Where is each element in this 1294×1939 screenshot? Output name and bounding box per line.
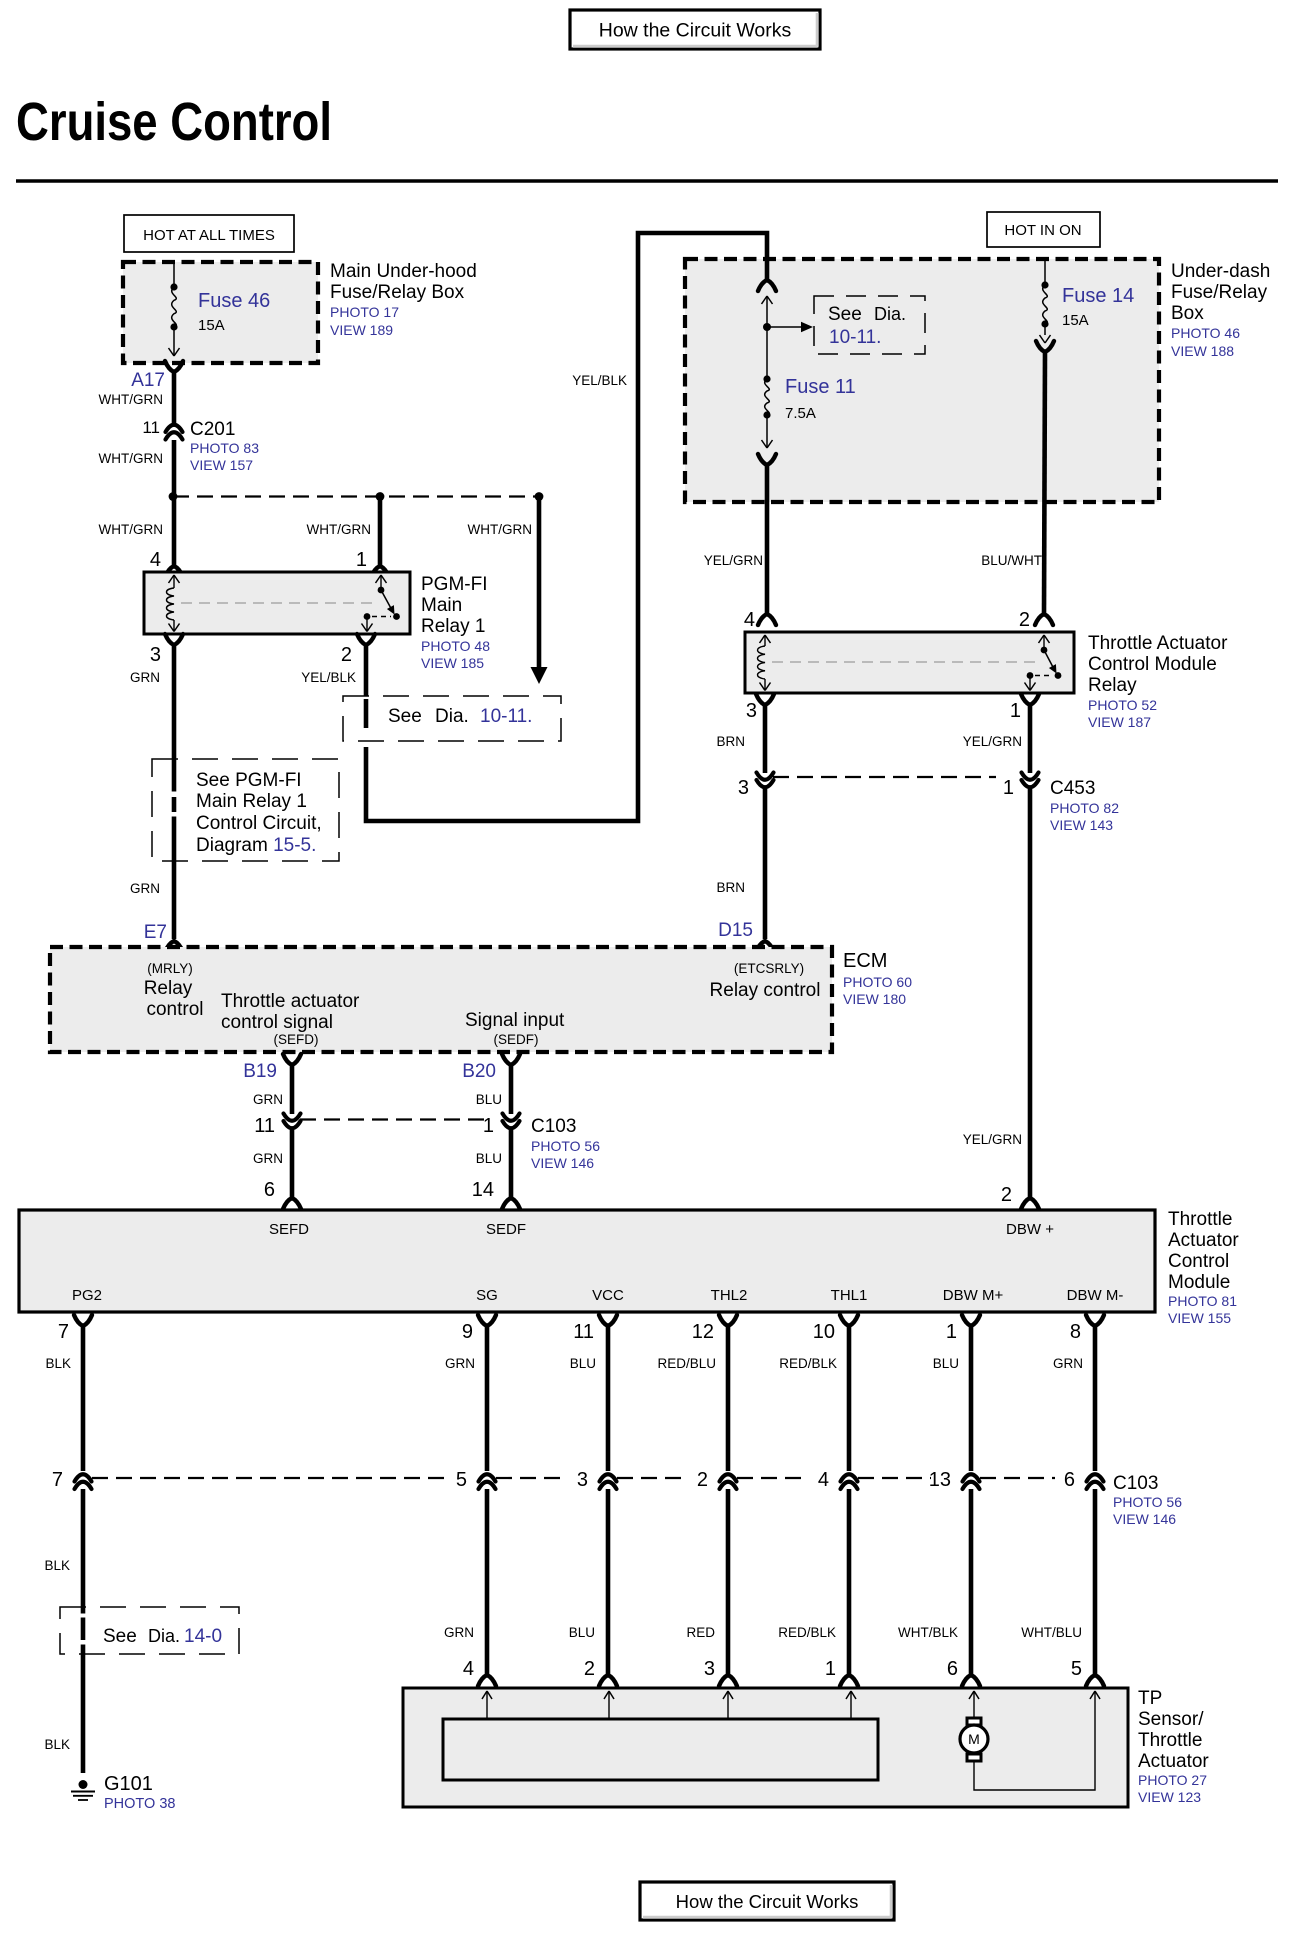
svg-text:2: 2 (1019, 609, 1030, 631)
svg-text:Relay 1: Relay 1 (421, 616, 485, 637)
svg-text:Cruise Control: Cruise Control (16, 92, 332, 152)
svg-text:C103: C103 (1113, 1473, 1158, 1494)
svg-text:YEL/GRN: YEL/GRN (963, 1132, 1022, 1147)
svg-text:3: 3 (738, 777, 749, 799)
svg-text:Fuse 11: Fuse 11 (785, 376, 856, 398)
svg-text:BLU/WHT: BLU/WHT (981, 553, 1042, 568)
svg-text:Dia.: Dia. (435, 706, 469, 727)
svg-text:PHOTO 81: PHOTO 81 (1168, 1293, 1237, 1309)
svg-text:DBW +: DBW + (1006, 1221, 1054, 1238)
svg-text:6: 6 (947, 1658, 958, 1680)
svg-text:PG2: PG2 (72, 1287, 102, 1304)
svg-text:11: 11 (254, 1115, 275, 1137)
svg-text:6: 6 (1064, 1469, 1075, 1491)
svg-text:PHOTO 56: PHOTO 56 (531, 1138, 600, 1154)
svg-text:4: 4 (463, 1658, 474, 1680)
svg-text:6: 6 (264, 1179, 275, 1201)
svg-text:15A: 15A (198, 317, 225, 334)
svg-text:3: 3 (577, 1469, 588, 1491)
svg-text:2: 2 (584, 1658, 595, 1680)
svg-text:control: control (146, 999, 203, 1020)
svg-text:PHOTO 52: PHOTO 52 (1088, 697, 1157, 713)
svg-text:PHOTO 48: PHOTO 48 (421, 638, 490, 654)
svg-text:BLK: BLK (45, 1356, 71, 1371)
svg-text:13: 13 (929, 1469, 951, 1491)
svg-text:7: 7 (52, 1469, 63, 1491)
svg-text:G101: G101 (104, 1773, 153, 1795)
svg-text:VIEW 188: VIEW 188 (1171, 343, 1234, 359)
svg-text:BLU: BLU (476, 1151, 502, 1166)
svg-text:WHT/GRN: WHT/GRN (307, 522, 372, 537)
svg-text:Control Circuit,: Control Circuit, (196, 813, 322, 834)
svg-text:THL2: THL2 (711, 1287, 748, 1304)
svg-text:GRN: GRN (444, 1625, 474, 1640)
svg-text:15A: 15A (1062, 312, 1089, 329)
svg-text:(ETCSRLY): (ETCSRLY) (734, 961, 804, 976)
svg-text:(SEDF): (SEDF) (494, 1032, 539, 1047)
svg-text:See: See (828, 304, 862, 325)
svg-text:10-11.: 10-11. (480, 706, 532, 727)
svg-text:See: See (388, 706, 422, 727)
svg-text:RED/BLU: RED/BLU (657, 1356, 716, 1371)
svg-text:YEL/BLK: YEL/BLK (301, 670, 356, 685)
svg-text:3: 3 (746, 700, 757, 722)
svg-text:GRN: GRN (1053, 1356, 1083, 1371)
svg-text:2: 2 (697, 1469, 708, 1491)
svg-text:VIEW 155: VIEW 155 (1168, 1310, 1231, 1326)
svg-text:control signal: control signal (221, 1012, 333, 1033)
svg-text:Dia.: Dia. (874, 304, 906, 324)
svg-text:Fuse 46: Fuse 46 (198, 290, 270, 312)
svg-text:1: 1 (356, 549, 367, 571)
svg-text:5: 5 (456, 1469, 467, 1491)
svg-text:PGM-FI: PGM-FI (421, 574, 488, 595)
svg-text:8: 8 (1070, 1321, 1081, 1343)
svg-text:HOT IN ON: HOT IN ON (1004, 222, 1081, 239)
svg-text:BRN: BRN (716, 880, 745, 895)
svg-text:BLK: BLK (44, 1558, 70, 1573)
svg-text:11: 11 (573, 1321, 594, 1343)
svg-text:BLU: BLU (476, 1092, 502, 1107)
svg-text:How the Circuit Works: How the Circuit Works (676, 1891, 859, 1912)
svg-text:VIEW 189: VIEW 189 (330, 322, 393, 338)
svg-text:ECM: ECM (843, 950, 887, 972)
svg-text:WHT/GRN: WHT/GRN (99, 451, 164, 466)
svg-text:Box: Box (1171, 303, 1204, 324)
svg-text:2: 2 (1001, 1184, 1012, 1206)
svg-text:PHOTO 60: PHOTO 60 (843, 974, 912, 990)
svg-text:VIEW 157: VIEW 157 (190, 457, 253, 473)
svg-text:Relay: Relay (1088, 675, 1137, 696)
svg-text:VIEW 123: VIEW 123 (1138, 1789, 1201, 1805)
svg-text:See: See (103, 1626, 137, 1647)
svg-text:BRN: BRN (716, 734, 745, 749)
svg-text:WHT/BLU: WHT/BLU (1021, 1625, 1082, 1640)
svg-text:2: 2 (341, 644, 352, 666)
svg-text:C201: C201 (190, 419, 235, 440)
svg-text:3: 3 (150, 644, 161, 666)
svg-text:1: 1 (1010, 700, 1021, 722)
svg-text:PHOTO 17: PHOTO 17 (330, 304, 399, 320)
svg-text:SG: SG (476, 1287, 498, 1304)
svg-text:PHOTO 46: PHOTO 46 (1171, 325, 1240, 341)
svg-text:GRN: GRN (253, 1092, 283, 1107)
svg-text:Main: Main (421, 595, 462, 616)
svg-text:Main Under-hood: Main Under-hood (330, 261, 477, 282)
svg-text:7.5A: 7.5A (785, 405, 816, 422)
svg-text:HOT AT ALL TIMES: HOT AT ALL TIMES (143, 227, 275, 244)
svg-text:(MRLY): (MRLY) (147, 961, 193, 976)
svg-text:VIEW 146: VIEW 146 (531, 1155, 594, 1171)
svg-text:10-11.: 10-11. (829, 327, 881, 348)
svg-text:3: 3 (704, 1658, 715, 1680)
svg-text:PHOTO 27: PHOTO 27 (1138, 1772, 1207, 1788)
svg-text:Throttle actuator: Throttle actuator (221, 991, 360, 1012)
svg-text:Throttle: Throttle (1168, 1209, 1232, 1230)
svg-text:BLU: BLU (933, 1356, 959, 1371)
svg-text:5: 5 (1071, 1658, 1082, 1680)
svg-text:7: 7 (58, 1321, 69, 1343)
svg-text:Sensor/: Sensor/ (1138, 1709, 1204, 1730)
svg-text:YEL/BLK: YEL/BLK (572, 373, 627, 388)
svg-text:VIEW 185: VIEW 185 (421, 655, 484, 671)
svg-text:BLU: BLU (570, 1356, 596, 1371)
svg-text:Throttle Actuator: Throttle Actuator (1088, 633, 1228, 654)
svg-text:Actuator: Actuator (1168, 1230, 1239, 1251)
svg-text:Throttle: Throttle (1138, 1730, 1202, 1751)
svg-text:14: 14 (472, 1179, 494, 1201)
svg-text:VIEW 146: VIEW 146 (1113, 1511, 1176, 1527)
svg-text:1: 1 (825, 1658, 836, 1680)
svg-text:RED/BLK: RED/BLK (778, 1625, 836, 1640)
svg-text:D15: D15 (718, 920, 753, 941)
svg-text:1: 1 (946, 1321, 957, 1343)
svg-text:C453: C453 (1050, 778, 1095, 799)
svg-text:WHT/GRN: WHT/GRN (468, 522, 533, 537)
svg-text:1: 1 (483, 1115, 494, 1137)
svg-text:12: 12 (692, 1321, 714, 1343)
svg-text:C103: C103 (531, 1116, 576, 1137)
svg-text:Fuse/Relay Box: Fuse/Relay Box (330, 282, 465, 303)
svg-text:See PGM-FI: See PGM-FI (196, 770, 302, 791)
svg-text:14-0: 14-0 (184, 1626, 222, 1647)
svg-text:YEL/GRN: YEL/GRN (704, 553, 763, 568)
svg-text:GRN: GRN (445, 1356, 475, 1371)
svg-text:(SEFD): (SEFD) (274, 1032, 319, 1047)
svg-text:Main Relay 1: Main Relay 1 (196, 791, 307, 812)
svg-text:Diagram 15-5.: Diagram 15-5. (196, 835, 316, 856)
svg-text:Module: Module (1168, 1272, 1230, 1293)
svg-text:Control Module: Control Module (1088, 654, 1217, 675)
svg-text:DBW M-: DBW M- (1067, 1287, 1124, 1304)
svg-text:RED/BLK: RED/BLK (779, 1356, 837, 1371)
svg-text:Actuator: Actuator (1138, 1751, 1209, 1772)
svg-text:THL1: THL1 (831, 1287, 868, 1304)
svg-text:How the Circuit Works: How the Circuit Works (599, 20, 792, 42)
svg-text:PHOTO 83: PHOTO 83 (190, 440, 259, 456)
svg-text:VCC: VCC (592, 1287, 624, 1304)
svg-text:WHT/GRN: WHT/GRN (99, 522, 164, 537)
svg-text:Signal input: Signal input (465, 1010, 565, 1031)
svg-text:GRN: GRN (130, 881, 160, 896)
svg-text:VIEW 187: VIEW 187 (1088, 714, 1151, 730)
svg-text:PHOTO 38: PHOTO 38 (104, 1796, 175, 1812)
svg-text:YEL/GRN: YEL/GRN (963, 734, 1022, 749)
svg-text:M: M (968, 1731, 980, 1747)
svg-text:Relay: Relay (144, 978, 193, 999)
svg-text:TP: TP (1138, 1688, 1162, 1709)
svg-text:Dia.: Dia. (148, 1626, 180, 1646)
svg-text:BLK: BLK (44, 1737, 70, 1752)
svg-text:VIEW 180: VIEW 180 (843, 991, 906, 1007)
svg-text:Under-dash: Under-dash (1171, 261, 1270, 282)
svg-text:RED: RED (686, 1625, 715, 1640)
svg-text:Fuse 14: Fuse 14 (1062, 285, 1134, 307)
svg-text:SEFD: SEFD (269, 1221, 309, 1238)
svg-text:A17: A17 (131, 370, 165, 391)
svg-text:E7: E7 (144, 922, 167, 943)
svg-text:9: 9 (462, 1321, 473, 1343)
svg-text:Control: Control (1168, 1251, 1229, 1272)
svg-text:VIEW 143: VIEW 143 (1050, 817, 1113, 833)
svg-text:WHT/BLK: WHT/BLK (898, 1625, 958, 1640)
svg-text:11: 11 (142, 418, 160, 437)
svg-text:1: 1 (1003, 777, 1014, 799)
svg-text:BLU: BLU (569, 1625, 595, 1640)
svg-text:PHOTO 82: PHOTO 82 (1050, 800, 1119, 816)
svg-text:SEDF: SEDF (486, 1221, 526, 1238)
svg-text:4: 4 (818, 1469, 829, 1491)
svg-text:Fuse/Relay: Fuse/Relay (1171, 282, 1268, 303)
svg-text:WHT/GRN: WHT/GRN (99, 392, 164, 407)
svg-text:10: 10 (813, 1321, 835, 1343)
svg-text:4: 4 (150, 549, 161, 571)
svg-text:B20: B20 (462, 1061, 496, 1082)
svg-text:Relay control: Relay control (710, 980, 821, 1001)
svg-text:4: 4 (744, 609, 755, 631)
svg-text:GRN: GRN (130, 670, 160, 685)
svg-text:DBW M+: DBW M+ (943, 1287, 1004, 1304)
svg-text:PHOTO 56: PHOTO 56 (1113, 1494, 1182, 1510)
svg-text:GRN: GRN (253, 1151, 283, 1166)
svg-text:B19: B19 (243, 1061, 277, 1082)
